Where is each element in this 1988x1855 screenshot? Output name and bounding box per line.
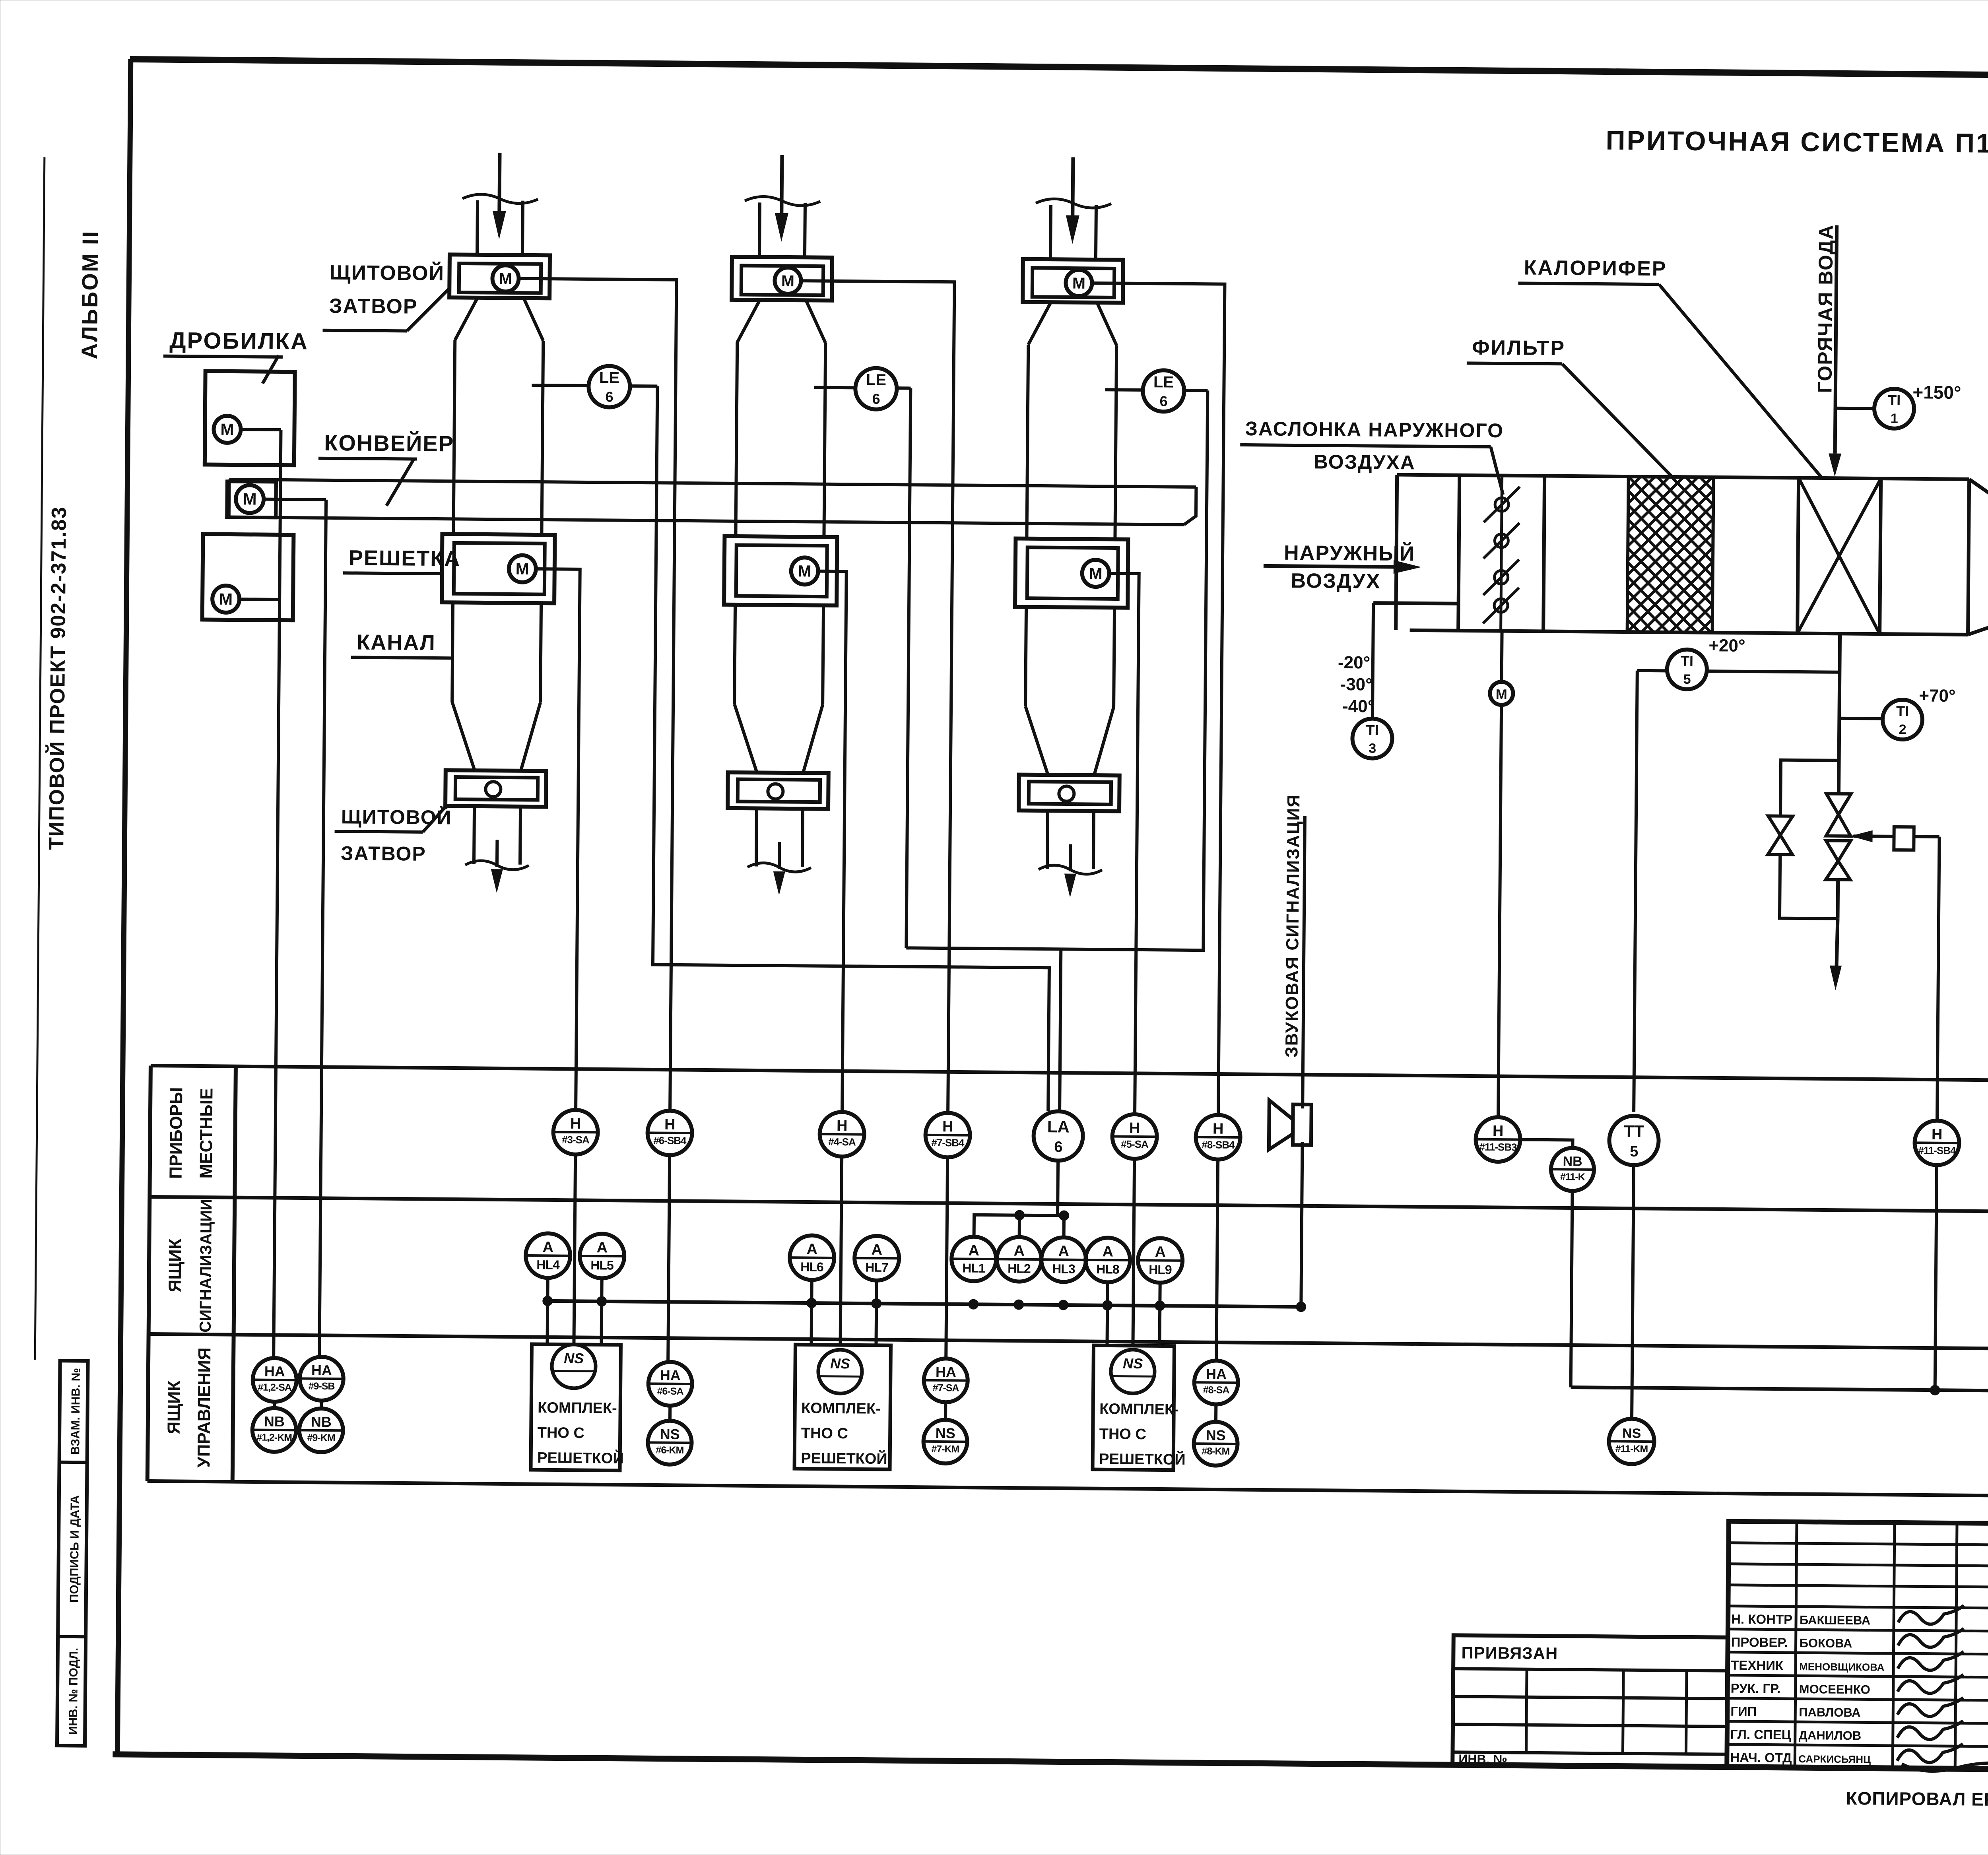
motor M channel 2 top gate <box>775 268 801 294</box>
svg-text:ТИПОВОЙ ПРОЕКТ 902-2-371.83: ТИПОВОЙ ПРОЕКТ 902-2-371.83 <box>45 506 71 850</box>
horn звуковая сигнализация <box>1293 1104 1311 1145</box>
channel 3 bottom gate box <box>1019 775 1120 811</box>
sheet border frame <box>130 59 1988 80</box>
wire channel 2 LE6 stub <box>814 386 855 390</box>
svg-text:БОКОВА: БОКОВА <box>1800 1636 1852 1650</box>
channel 1 hopper top <box>455 297 478 340</box>
flourish signature <box>1902 1762 1988 1774</box>
instrument H #8-SB4 <box>1196 1115 1241 1160</box>
AHU inlet floor <box>1373 603 1458 604</box>
svg-text:КОПИРОВАЛ ЕРЕМЧЕНКО: КОПИРОВАЛ ЕРЕМЧЕНКО <box>1846 1788 1988 1810</box>
channel 2 discharge pipe <box>756 808 757 866</box>
svg-text:HL4: HL4 <box>536 1257 560 1272</box>
wire damper M down to H 11-SB3 <box>1498 705 1501 1117</box>
instrument H #11-SB3 <box>1475 1117 1520 1162</box>
svg-text:+20°: +20° <box>1708 636 1745 656</box>
svg-text:ВОЗДУХА: ВОЗДУХА <box>1314 450 1415 473</box>
thermometer TI5 <box>1667 649 1707 689</box>
wire LA6 to lamp bracket <box>974 1160 1058 1238</box>
level sensor LE6 channel 2 <box>855 368 897 409</box>
wire TI5 down to TT5 <box>1634 671 1637 1112</box>
sound signal wire upper <box>1303 816 1305 1108</box>
wire channel 2 grille M run <box>814 571 846 1112</box>
link 7 <box>944 1402 947 1420</box>
svg-text:HL2: HL2 <box>1008 1261 1031 1275</box>
wire HL5 drop <box>601 1278 602 1344</box>
junction bracket HL3 <box>1059 1210 1069 1220</box>
junction sound signal at bus <box>1296 1302 1306 1312</box>
svg-text:КОМПЛЕК-: КОМПЛЕК- <box>538 1399 617 1417</box>
instrument LA6 <box>1033 1111 1083 1161</box>
wire HL7 drop <box>876 1281 876 1345</box>
channel 2 top gate box (щитовой затвор) <box>732 257 832 301</box>
controller NS #8-KM <box>1194 1422 1238 1466</box>
svg-text:ЯЩИК: ЯЩИК <box>165 1238 185 1292</box>
junction bus 2456 <box>968 1299 978 1310</box>
controller HA #7-SA <box>924 1358 968 1403</box>
svg-text:РЕШЕТКА: РЕШЕТКА <box>349 546 461 570</box>
svg-text:НАЧ. ОТД: НАЧ. ОТД <box>1730 1750 1792 1765</box>
wire channel 1 gate M run <box>512 279 676 1111</box>
svg-text:-30°: -30° <box>1340 675 1373 695</box>
wire H3-SA to NS box1 <box>574 1155 575 1345</box>
crusher lower box <box>202 534 294 620</box>
svg-text:ТНО С: ТНО С <box>801 1425 848 1442</box>
motor M channel 1 grille <box>509 555 536 583</box>
motor M conveyor <box>236 485 264 513</box>
wire channel 2 gate M run <box>794 281 954 1113</box>
svg-text:TI: TI <box>1681 653 1693 669</box>
svg-text:HL9: HL9 <box>1149 1262 1172 1277</box>
motor M channel 2 grille <box>791 557 818 585</box>
svg-text:#11-SB4: #11-SB4 <box>1918 1144 1956 1156</box>
wire actuator to drop <box>1914 835 1939 838</box>
svg-text:TT: TT <box>1624 1122 1644 1141</box>
svg-text:КАНАЛ: КАНАЛ <box>357 631 436 655</box>
svg-text:NS: NS <box>1206 1427 1226 1443</box>
svg-text:NS: NS <box>1622 1426 1641 1441</box>
svg-text:+70°: +70° <box>1919 686 1956 706</box>
svg-text:ИНВ. № ПОДЛ.: ИНВ. № ПОДЛ. <box>67 1648 81 1735</box>
svg-text:NB: NB <box>311 1414 332 1430</box>
lamp A HL5 <box>580 1234 625 1279</box>
svg-text:A: A <box>871 1242 882 1258</box>
channel 1 discharge arrow <box>495 840 499 867</box>
svg-text:1: 1 <box>1891 411 1898 426</box>
wire channel 1 LE6 stub <box>532 385 588 386</box>
svg-text:#7-KM: #7-KM <box>931 1444 959 1455</box>
wire hot water to TI1 <box>1835 407 1874 410</box>
svg-text:LE: LE <box>599 369 619 386</box>
motor M channel 3 grille <box>1082 560 1109 587</box>
controller NS box3 <box>1111 1349 1155 1393</box>
wire actuator drop to H 11-SB4 <box>1937 837 1939 1121</box>
AHU outlet cone <box>1968 479 1969 635</box>
svg-text:ТЕХНИК: ТЕХНИК <box>1731 1658 1784 1673</box>
controller HA #9-SB <box>299 1356 344 1401</box>
wire H7-SB4 to HA7-SA <box>946 1157 947 1358</box>
svg-text:М: М <box>220 420 234 439</box>
controller NS box1 <box>552 1344 596 1388</box>
svg-text:РУК. ГР.: РУК. ГР. <box>1731 1681 1781 1696</box>
svg-text:ФИЛЬТР: ФИЛЬТР <box>1472 336 1565 360</box>
svg-text:#5-SA: #5-SA <box>1121 1138 1149 1151</box>
signature ПАВЛОВА <box>1897 1697 1963 1717</box>
wire H11-SB3 to NB11-K <box>1520 1140 1573 1147</box>
wire NB11-K down to bus3 <box>1571 1191 1573 1387</box>
table vertical lines <box>148 1065 151 1481</box>
svg-text:БАКШЕЕВА: БАКШЕЕВА <box>1800 1613 1870 1627</box>
svg-text:5: 5 <box>1630 1143 1638 1160</box>
svg-text:3: 3 <box>1369 741 1376 756</box>
channel 2 bottom gate circle <box>768 784 783 799</box>
conveyor band <box>229 479 1196 487</box>
svg-text:NB: NB <box>1563 1154 1582 1169</box>
svg-text:М: М <box>781 272 794 290</box>
control box channel 1 (комплектно с решеткой) <box>531 1344 621 1471</box>
svg-text:TI: TI <box>1896 703 1909 719</box>
wire inlet down to TI3 <box>1373 603 1373 718</box>
svg-text:#1,2-KM: #1,2-KM <box>256 1432 292 1444</box>
channel 3 lower walls <box>1025 607 1026 706</box>
svg-text:A: A <box>596 1239 608 1256</box>
svg-text:КОМПЛЕК-: КОМПЛЕК- <box>801 1400 881 1417</box>
svg-text:ЗАТВОР: ЗАТВОР <box>341 842 426 865</box>
svg-text:HL1: HL1 <box>962 1261 985 1275</box>
attachment table <box>1452 1635 1728 1767</box>
svg-text:#7-SA: #7-SA <box>933 1382 959 1394</box>
svg-text:СИГНАЛИЗАЦИИ: СИГНАЛИЗАЦИИ <box>197 1199 215 1332</box>
svg-text:HL6: HL6 <box>800 1259 823 1274</box>
wire channel 3 LE6 stub <box>1105 388 1143 392</box>
svg-text:A: A <box>968 1242 979 1259</box>
controller NB #1,2-KM <box>252 1408 296 1452</box>
channel 2 lower hopper <box>734 704 757 772</box>
wire channel 2 LE6 to corner <box>897 386 911 390</box>
wire H4-SA to NS box2 <box>840 1156 842 1345</box>
thermometer TI3 <box>1352 718 1392 759</box>
svg-text:ПРОВЕР.: ПРОВЕР. <box>1731 1635 1788 1650</box>
svg-text:ПРИТОЧНАЯ СИСТЕМА П1: ПРИТОЧНАЯ СИСТЕМА П1 <box>1606 125 1988 159</box>
svg-text:#6-SB4: #6-SB4 <box>653 1134 687 1147</box>
svg-text:КОНВЕЙЕР: КОНВЕЙЕР <box>324 430 454 456</box>
motor M crusher lower <box>212 586 240 613</box>
signature МОСЕЕНКО <box>1898 1674 1963 1694</box>
channel 1 inflow pipe <box>477 200 478 255</box>
wire TI5 run <box>1637 669 1668 673</box>
bypass pipe <box>1780 760 1839 817</box>
title block name grid <box>1729 1543 1988 1545</box>
controller HA #6-SA <box>648 1362 692 1406</box>
svg-text:6: 6 <box>1159 393 1167 409</box>
control box channel 3 (комплектно с решеткой) <box>1093 1345 1174 1470</box>
channel 1 lower hopper <box>452 702 475 770</box>
svg-text:М: М <box>243 489 256 508</box>
grille box channel 3 <box>1015 539 1128 608</box>
svg-text:#9-SB: #9-SB <box>309 1381 335 1392</box>
svg-text:КАЛОРИФЕР: КАЛОРИФЕР <box>1524 256 1667 281</box>
svg-text:М: М <box>219 590 233 608</box>
wire conveyor drop to HA 9-SB <box>319 500 326 1357</box>
wire crusher drop to HA 1,2-SA <box>274 430 281 1358</box>
link 8 <box>1214 1405 1217 1422</box>
grille box channel 2 <box>724 536 837 605</box>
svg-text:H: H <box>1493 1123 1504 1139</box>
wire jog down to LA6 <box>1060 949 1061 1111</box>
svg-text:#9-KM: #9-KM <box>307 1432 335 1444</box>
svg-text:+150°: +150° <box>1912 382 1961 403</box>
link HA-NB left <box>273 1402 276 1408</box>
channel 2 walls <box>736 342 737 536</box>
svg-text:A: A <box>1102 1243 1113 1260</box>
svg-text:МЕНОВЩИКОВА: МЕНОВЩИКОВА <box>1799 1661 1885 1673</box>
svg-text:NS: NS <box>660 1426 680 1442</box>
motor M damper <box>1490 682 1513 705</box>
damper blades <box>1495 498 1508 511</box>
wire to TI2 <box>1839 717 1883 720</box>
junction bus 1385 <box>542 1296 553 1306</box>
heater return pipe <box>1839 634 1840 794</box>
svg-text:МОСЕЕНКО: МОСЕЕНКО <box>1799 1682 1870 1696</box>
lamp A HL6 <box>790 1235 835 1280</box>
svg-text:ЗВУКОВАЯ СИГНАЛИЗАЦИЯ: ЗВУКОВАЯ СИГНАЛИЗАЦИЯ <box>1282 794 1303 1058</box>
wire channel 1 LE6 to corner <box>630 384 657 388</box>
wire channel 3 LE6 to corner <box>1184 389 1208 392</box>
svg-text:#1,2-SA: #1,2-SA <box>258 1382 292 1393</box>
lamp A HL8 <box>1085 1238 1130 1283</box>
lamp A HL7 <box>854 1236 899 1281</box>
channel 3 top gate box (щитовой затвор) <box>1023 259 1123 303</box>
svg-text:УПРАВЛЕНИЯ: УПРАВЛЕНИЯ <box>194 1347 214 1468</box>
junction bus 2793 <box>1102 1300 1112 1310</box>
svg-text:М: М <box>1496 687 1507 702</box>
svg-text:6: 6 <box>605 388 613 405</box>
sound signal wire lower <box>1301 1142 1302 1307</box>
channel 3 discharge pipe <box>1047 811 1048 869</box>
svg-text:М: М <box>1089 564 1103 582</box>
lamp A HL3 <box>1041 1237 1086 1282</box>
wire HL6 drop <box>811 1280 812 1344</box>
channel 1 walls <box>453 340 455 534</box>
wire channel 3 grille M run <box>1105 573 1139 1114</box>
wire channel 3 gate M run <box>1085 283 1225 1115</box>
channel 2 discharge arrow <box>778 842 781 869</box>
left paper trim line <box>35 157 45 1360</box>
heater section <box>1798 478 1799 633</box>
hot water line <box>1835 225 1837 454</box>
svg-text:САРКИСЬЯНЦ: САРКИСЬЯНЦ <box>1798 1753 1871 1765</box>
svg-text:NB: NB <box>264 1413 285 1430</box>
svg-text:NS: NS <box>1123 1355 1143 1372</box>
channel 3 lower hopper <box>1025 706 1048 775</box>
wire channel 1 grille M run <box>532 569 580 1110</box>
instrument H #7-SB4 <box>925 1113 970 1158</box>
svg-text:ПАВЛОВА: ПАВЛОВА <box>1799 1705 1861 1719</box>
instrument H #6-SB4 <box>647 1110 692 1155</box>
signature САРКИСЬЯНЦ <box>1897 1743 1963 1763</box>
wire crusher lower M to drop <box>239 598 280 601</box>
lamp A HL9 <box>1138 1238 1183 1283</box>
svg-text:HL7: HL7 <box>865 1260 888 1275</box>
svg-text:A: A <box>542 1239 553 1255</box>
channel 3 walls <box>1027 345 1028 539</box>
svg-text:РЕШЕТКОЙ: РЕШЕТКОЙ <box>801 1449 887 1467</box>
signature МЕНОВЩИКОВА <box>1898 1651 1963 1671</box>
lamp bracket branches <box>1018 1215 1021 1237</box>
damper section lines <box>1458 475 1460 631</box>
controller NS #11-KM <box>1609 1418 1654 1464</box>
svg-text:ЗАТВОР: ЗАТВОР <box>329 295 418 318</box>
channel 2 bottom gate box <box>728 772 829 809</box>
controller NS #7-KM <box>923 1420 967 1464</box>
svg-text:ГЛ. СПЕЦ: ГЛ. СПЕЦ <box>1730 1727 1791 1742</box>
svg-text:H: H <box>942 1118 953 1135</box>
junction bus 2049 <box>806 1298 817 1308</box>
signal bus <box>547 1301 1301 1307</box>
svg-text:-40°: -40° <box>1342 697 1375 716</box>
motor M channel 3 top gate <box>1066 270 1092 296</box>
signature БАКШЕЕВА <box>1898 1605 1964 1624</box>
channel 3 inflow arrow <box>1073 157 1073 216</box>
junction bus3 H11-SB4 <box>1930 1385 1940 1395</box>
lamp A HL4 <box>526 1233 571 1278</box>
svg-text:A: A <box>1155 1244 1166 1260</box>
svg-text:#11-K: #11-K <box>1560 1171 1585 1182</box>
svg-text:ЯЩИК: ЯЩИК <box>164 1380 184 1434</box>
wire HL9 drop <box>1159 1283 1160 1346</box>
svg-text:HA: HA <box>1206 1366 1227 1382</box>
junction bus 2570 <box>1013 1300 1024 1310</box>
wire damper axis to M <box>1502 631 1502 682</box>
svg-text:HL5: HL5 <box>590 1258 613 1272</box>
wire H5-SA to NS box3 <box>1133 1159 1134 1347</box>
controller HA #8-SA <box>1194 1360 1238 1405</box>
valve actuator arrow <box>1854 834 1894 838</box>
wire HL8 drop <box>1107 1282 1107 1345</box>
channel 3 discharge arrow <box>1069 844 1072 871</box>
svg-text:-20°: -20° <box>1338 653 1371 673</box>
three-way control valve <box>1826 794 1851 815</box>
svg-text:ДАНИЛОВ: ДАНИЛОВ <box>1799 1728 1862 1742</box>
signature ДАНИЛОВ <box>1897 1720 1963 1740</box>
instrument H #4-SA <box>819 1112 864 1157</box>
channel 2 inflow arrow <box>782 155 782 214</box>
level sensor LE6 channel 3 <box>1143 370 1184 412</box>
svg-text:#7-SB4: #7-SB4 <box>931 1137 965 1149</box>
svg-text:ТНО С: ТНО С <box>1099 1426 1147 1443</box>
svg-text:LE: LE <box>1153 373 1174 391</box>
valve actuator box <box>1894 827 1914 850</box>
svg-text:#4-SA: #4-SA <box>828 1136 856 1148</box>
svg-text:H: H <box>1129 1120 1140 1137</box>
junction bus 1521 <box>596 1296 607 1306</box>
junction bus 2925 <box>1155 1300 1165 1311</box>
svg-text:ВОЗДУХ: ВОЗДУХ <box>1291 569 1380 593</box>
svg-text:5: 5 <box>1683 672 1691 687</box>
svg-text:HA: HA <box>936 1364 956 1380</box>
svg-text:#8-KM: #8-KM <box>1202 1446 1229 1457</box>
svg-text:A: A <box>1013 1243 1025 1259</box>
channel 2 hopper top <box>737 300 760 342</box>
control box channel 2 (комплектно с решеткой) <box>794 1345 891 1469</box>
channel 3 hopper top <box>1028 302 1051 345</box>
controller NB #9-KM <box>299 1408 343 1452</box>
svg-text:6: 6 <box>1054 1139 1062 1155</box>
svg-text:М: М <box>1072 275 1085 292</box>
svg-text:ВЗАМ. ИНВ. №: ВЗАМ. ИНВ. № <box>69 1368 83 1455</box>
thermometer TI1 <box>1874 388 1914 429</box>
svg-text:6: 6 <box>872 391 879 407</box>
AHU casing <box>1397 475 1969 479</box>
channel 1 lower walls <box>452 602 453 702</box>
svg-text:ЩИТОВОЙ: ЩИТОВОЙ <box>329 261 445 285</box>
svg-text:HL8: HL8 <box>1096 1262 1119 1276</box>
svg-text:HA: HA <box>264 1363 285 1380</box>
grille box channel 1 <box>442 534 555 603</box>
instrument TT5 <box>1609 1116 1659 1165</box>
channel 1 inflow arrow <box>499 153 500 212</box>
controller NS #6-KM <box>648 1420 692 1465</box>
svg-text:#6-KM: #6-KM <box>656 1444 683 1456</box>
wire HL4 drop <box>547 1278 547 1343</box>
svg-text:TI: TI <box>1366 722 1378 738</box>
svg-text:H: H <box>1932 1126 1943 1143</box>
svg-text:A: A <box>806 1241 817 1257</box>
svg-text:H: H <box>837 1118 848 1134</box>
wire H6-SB4 to HA6-SA <box>668 1155 670 1362</box>
svg-text:#8-SA: #8-SA <box>1203 1384 1230 1396</box>
wire TT5 down to NS11-KM <box>1632 1165 1634 1419</box>
channel 1 discharge pipe <box>474 806 474 864</box>
svg-text:ПРИБОРЫ: ПРИБОРЫ <box>166 1087 186 1179</box>
svg-text:ТНО С: ТНО С <box>538 1424 585 1442</box>
svg-text:LE: LE <box>866 371 886 389</box>
wire crusher upper M to drop <box>241 428 281 431</box>
channel 2 lower walls <box>734 605 735 704</box>
motor M channel 1 top gate <box>492 265 519 292</box>
wire conveyor M to drop <box>264 499 326 500</box>
wire LE6-2 drop to jog <box>906 388 911 948</box>
svg-text:#11-KM: #11-KM <box>1615 1443 1648 1455</box>
bypass valve <box>1768 816 1793 835</box>
left margin strip box <box>57 1361 88 1746</box>
conveyor motor box <box>227 481 276 518</box>
svg-text:ЗАСЛОНКА НАРУЖНОГО: ЗАСЛОНКА НАРУЖНОГО <box>1245 417 1504 442</box>
wire LE6-3 drop and jog <box>906 388 1208 950</box>
svg-text:ПРИВЯЗАН: ПРИВЯЗАН <box>1461 1643 1558 1663</box>
wire H11-SB4 lower <box>1935 1165 1937 1390</box>
svg-text:NS: NS <box>830 1355 850 1372</box>
level sensor LE6 channel 1 <box>588 366 630 407</box>
svg-text:Н. КОНТР: Н. КОНТР <box>1731 1612 1792 1627</box>
crusher upper box <box>205 371 295 465</box>
svg-text:H: H <box>570 1116 581 1132</box>
svg-text:#8-SB4: #8-SB4 <box>1202 1139 1235 1151</box>
svg-text:HL3: HL3 <box>1052 1261 1075 1276</box>
instrument H #5-SA <box>1112 1114 1157 1159</box>
svg-text:NS: NS <box>564 1350 584 1366</box>
svg-text:H: H <box>664 1116 676 1133</box>
channel 1 bottom gate circle <box>485 782 501 797</box>
svg-text:М: М <box>499 270 512 287</box>
junction bus 2212 <box>871 1298 881 1309</box>
channel 2 inflow pipe <box>759 202 760 257</box>
link 6 <box>668 1362 670 1362</box>
discharge arrow <box>1837 919 1838 966</box>
lamp A HL1 <box>951 1236 996 1281</box>
instrument H #3-SA <box>553 1110 598 1155</box>
svg-text:2: 2 <box>1899 722 1906 737</box>
